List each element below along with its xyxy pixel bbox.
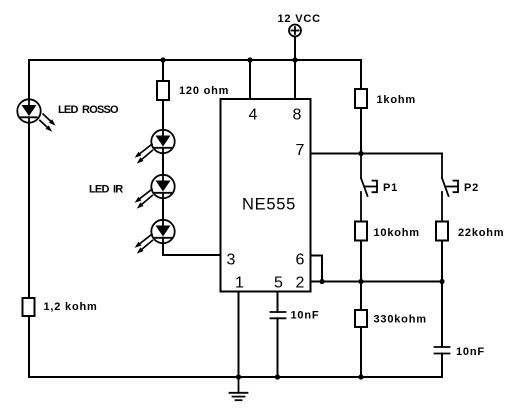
LED D4 IR bbox=[135, 220, 175, 254]
svg-text:4: 4 bbox=[249, 107, 258, 124]
wire to 330kohm bbox=[360, 282, 362, 311]
resistor 10kohm bbox=[355, 222, 367, 241]
node junction top bus at 120 ohm branch bbox=[160, 57, 165, 62]
node junction pin 2 net and 22kohm/cap bbox=[439, 279, 444, 284]
pushbutton P1 bbox=[361, 154, 377, 222]
svg-text:LED IR: LED IR bbox=[89, 184, 123, 196]
svg-text:LED ROSSO: LED ROSSO bbox=[58, 104, 119, 116]
node junction pin 6 and pin 2 bbox=[319, 279, 324, 284]
wire capacitor pin 5 to bottom bus bbox=[277, 318, 279, 377]
svg-text:6: 6 bbox=[296, 252, 305, 269]
pushbutton P2 bbox=[442, 154, 458, 222]
wire LED3 to pin 3 bbox=[163, 244, 221, 256]
svg-text:NE555: NE555 bbox=[242, 195, 296, 213]
LED D3 IR bbox=[135, 175, 175, 209]
wire pin 7 extension to P2 bbox=[361, 153, 442, 155]
svg-text:7: 7 bbox=[296, 142, 305, 159]
wire pin 6 loop bbox=[311, 256, 323, 282]
svg-text:12 VCC: 12 VCC bbox=[278, 13, 321, 25]
wire pin 7 bbox=[311, 153, 362, 155]
svg-text:22kohm: 22kohm bbox=[458, 227, 504, 239]
LED D1 LED ROSSO bbox=[17, 99, 55, 132]
resistor 1,2 kohm bbox=[23, 298, 35, 316]
svg-text:2: 2 bbox=[296, 275, 305, 292]
svg-text:5: 5 bbox=[274, 275, 283, 292]
wire capacitor right to bottom bus bbox=[441, 354, 443, 378]
wire LED2 to LED3 bbox=[162, 199, 164, 220]
ground bbox=[230, 377, 248, 400]
node junction top bus at pin 4 bbox=[247, 57, 252, 62]
resistor 22kohm bbox=[436, 222, 448, 241]
wire 1kohm to pin 7 node bbox=[360, 108, 362, 154]
wire 330kohm to bottom bus bbox=[360, 327, 362, 377]
resistor 330kohm bbox=[355, 310, 367, 327]
wire pin 5 to capacitor bbox=[277, 292, 279, 313]
svg-text:10kohm: 10kohm bbox=[374, 227, 420, 239]
wire 120 ohm branch top bbox=[162, 60, 164, 81]
svg-text:10nF: 10nF bbox=[291, 310, 320, 322]
node junction top bus at VCC / pin 8 bbox=[292, 57, 297, 62]
wire left rail middle bbox=[28, 123, 30, 298]
power supply +12V symbol bbox=[289, 25, 301, 61]
svg-text:3: 3 bbox=[227, 252, 236, 269]
capacitor 10nF right bbox=[435, 347, 450, 354]
svg-text:1kohm: 1kohm bbox=[377, 94, 416, 106]
capacitor 10nF pin 5 bbox=[271, 312, 286, 318]
svg-text:1,2 kohm: 1,2 kohm bbox=[44, 301, 98, 313]
IC U1 NE555 body bbox=[221, 99, 311, 292]
svg-text:1: 1 bbox=[235, 275, 244, 292]
node junction bottom bus at 330kohm bbox=[358, 374, 363, 379]
wire 120 ohm to LED1 bbox=[162, 100, 164, 130]
resistor 120 ohm bbox=[157, 81, 169, 100]
node junction pin 2 net and 10kohm/330kohm bbox=[358, 279, 363, 284]
wire pin 4 to top bus bbox=[249, 60, 251, 99]
resistor 1kohm bbox=[355, 89, 367, 108]
node junction pin 7 and 1kohm bbox=[358, 151, 363, 156]
svg-text:10nF: 10nF bbox=[456, 346, 485, 358]
wire 1kohm branch from top bus bbox=[360, 60, 362, 89]
svg-text:P1: P1 bbox=[383, 182, 398, 194]
svg-text:8: 8 bbox=[293, 107, 302, 124]
wire 22kohm node to capacitor bbox=[441, 282, 443, 347]
svg-text:120 ohm: 120 ohm bbox=[179, 85, 229, 97]
wire 10kohm to pin 2 net bbox=[360, 241, 362, 282]
node junction bottom bus at pin 1 / ground bbox=[236, 374, 241, 379]
svg-text:330kohm: 330kohm bbox=[374, 314, 427, 326]
wire pin 1 to ground bus bbox=[238, 292, 240, 378]
wire pin 8 to top bus bbox=[294, 60, 296, 99]
LED D2 IR bbox=[135, 130, 175, 164]
node junction bottom bus at pin 5 capacitor bbox=[275, 374, 280, 379]
wire top bus bbox=[29, 59, 361, 61]
wire 22kohm to pin 2 net bbox=[441, 241, 443, 282]
svg-text:P2: P2 bbox=[464, 182, 479, 194]
wire left rail upper bbox=[28, 60, 30, 100]
wire pin 2 net bbox=[311, 281, 443, 283]
wire left rail lower bbox=[28, 316, 30, 377]
wire bottom bus bbox=[29, 376, 442, 378]
wire LED1 to LED2 bbox=[162, 154, 164, 175]
